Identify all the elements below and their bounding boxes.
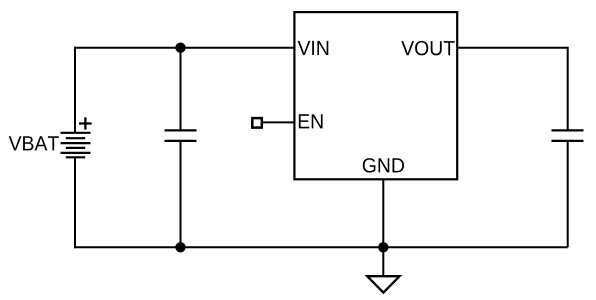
pin label VIN xyxy=(298,41,329,55)
ground symbol xyxy=(367,276,399,292)
wire output capacitor top branch xyxy=(567,47,569,131)
wire output capacitor bottom branch xyxy=(567,141,569,247)
output capacitor xyxy=(552,130,584,141)
wire battery bottom vertical xyxy=(74,157,76,248)
junction dot GND at bottom rail xyxy=(378,242,388,252)
battery plus sign xyxy=(79,117,92,129)
wire top rail from battery to VIN xyxy=(75,47,295,49)
pin label EN xyxy=(299,114,323,128)
wire battery top vertical xyxy=(74,47,76,133)
wire EN terminal to EN pin xyxy=(263,121,294,123)
pin label GND xyxy=(363,158,404,173)
junction dot top rail xyxy=(175,43,185,53)
wire bottom rail xyxy=(75,246,568,248)
wire GND pin down xyxy=(382,179,384,276)
wire input capacitor bottom branch xyxy=(180,141,182,247)
input capacitor xyxy=(165,130,197,141)
pin label VOUT xyxy=(401,41,454,56)
wire VOUT to right rail xyxy=(457,47,568,49)
IC U1 regulator block xyxy=(294,12,457,179)
junction dot bottom rail left xyxy=(175,242,185,252)
EN input terminal square xyxy=(252,118,261,128)
wire input capacitor top branch xyxy=(180,48,182,131)
label VBAT xyxy=(9,136,59,150)
battery VBAT xyxy=(61,133,91,158)
